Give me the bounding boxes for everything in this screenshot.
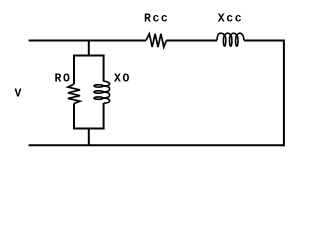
wire right branch upper (103, 55, 105, 82)
inductor X0 (94, 81, 110, 103)
svg-text:Xcc: Xcc (218, 12, 243, 25)
resistor Rcc (146, 34, 166, 47)
wire stem top (junction to parallel block) (88, 41, 90, 56)
wire inner rect top (74, 55, 104, 57)
svg-text:V: V (15, 88, 23, 101)
wire top-right segment, right side and bottom (29, 41, 284, 146)
wire inner rect bottom (74, 128, 104, 130)
wire left branch lower (73, 104, 75, 130)
inductor Xcc (217, 33, 244, 46)
wire right branch lower (103, 103, 105, 130)
svg-text:Rcc: Rcc (144, 12, 169, 25)
svg-text:RO: RO (55, 73, 72, 86)
resistor R0 (68, 84, 80, 103)
wire top-mid segment (166, 40, 217, 42)
wire top-left segment (29, 40, 146, 42)
wire left branch upper (73, 55, 75, 85)
svg-text:XO: XO (114, 73, 131, 86)
wire stem bottom (88, 129, 90, 147)
